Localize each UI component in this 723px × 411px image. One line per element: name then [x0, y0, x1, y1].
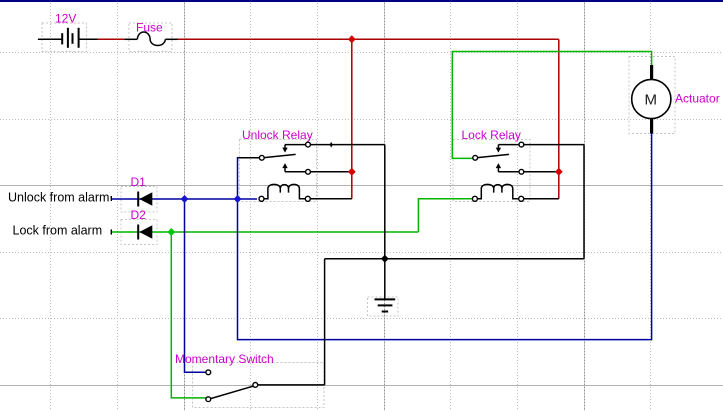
svg-text:M: M [645, 92, 658, 109]
svg-text:Lock from alarm: Lock from alarm [13, 224, 103, 238]
svg-text:Unlock Relay: Unlock Relay [242, 128, 313, 142]
svg-text:Momentary Switch: Momentary Switch [175, 352, 274, 366]
svg-text:D2: D2 [131, 208, 147, 222]
svg-text:D1: D1 [131, 175, 147, 189]
svg-text:Fuse: Fuse [136, 21, 163, 35]
svg-text:12V: 12V [55, 12, 76, 26]
svg-text:Lock Relay: Lock Relay [462, 128, 521, 142]
svg-text:Actuator: Actuator [675, 92, 720, 106]
svg-text:Unlock from alarm: Unlock from alarm [8, 190, 109, 204]
